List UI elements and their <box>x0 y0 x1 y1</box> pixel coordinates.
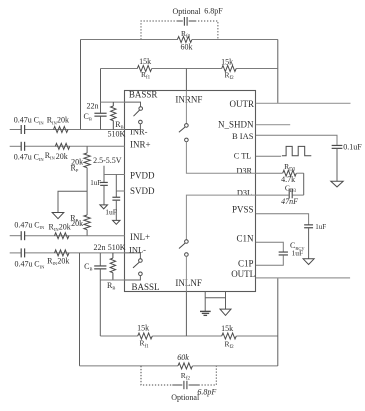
svg-text:1uF: 1uF <box>105 207 117 216</box>
svg-text:INR-: INR- <box>130 127 148 137</box>
optional feedback capacitor C (6.8pF) bottom with dashed connection box <box>141 366 216 389</box>
wire D3R <box>256 172 304 174</box>
wire OUTR <box>256 102 351 104</box>
label 6.8pF (bottom) <box>197 387 216 396</box>
label 510K (RB1) <box>108 129 126 138</box>
svg-text:Optional: Optional <box>171 393 200 402</box>
ground (IC, triangle) <box>220 309 231 315</box>
wire BASSL line <box>100 279 125 281</box>
capacitor CS2 1uF <box>112 197 120 200</box>
wire IC ground stub left <box>204 292 206 311</box>
switch S2 lower circle <box>185 138 189 142</box>
switch S3 INLNF upper circle <box>185 240 189 244</box>
wire C_BIAS to ground <box>336 149 338 182</box>
label 22n (CB2) <box>94 243 106 252</box>
wire input INL- row <box>10 252 125 254</box>
wire PVDD pin <box>104 174 125 176</box>
svg-text:INRNF: INRNF <box>175 95 202 105</box>
ground (IC, bar style) <box>200 311 211 315</box>
svg-text:PVDD: PVDD <box>130 171 155 181</box>
label RF3 <box>181 29 191 40</box>
label 20k (RP1) <box>71 157 83 166</box>
label RF2 <box>225 71 235 82</box>
wire D3L internal to INLNF switch <box>186 195 255 240</box>
svg-text:D3L: D3L <box>237 189 252 198</box>
pin label D3R <box>236 167 252 176</box>
resistor RB1 510K (vertical) <box>111 102 116 129</box>
switch S1 BASSR terminal circle <box>139 107 143 111</box>
wire CB1 top lead <box>100 102 102 113</box>
svg-text:SVDD: SVDD <box>130 186 155 196</box>
switch S3 lower circle <box>185 253 189 257</box>
label RIN4 20k <box>47 257 69 267</box>
wire top feedback left vertical <box>80 40 82 130</box>
svg-text:20k: 20k <box>57 257 69 266</box>
wire supply stub <box>103 166 105 183</box>
resistor RF6 15k (bottom right) <box>222 333 237 339</box>
label 2.5-5.5V <box>93 156 122 165</box>
wire SVDD branch <box>115 175 117 192</box>
wire C1N <box>256 242 283 252</box>
ground (bias divider) <box>52 213 64 219</box>
capacitor C_PVSS 1uF <box>304 225 313 228</box>
svg-text:20k: 20k <box>57 116 69 125</box>
wire 15k bottom row <box>100 335 277 337</box>
resistor RF1 15k (top left) <box>137 66 151 72</box>
pin label C1P <box>238 258 254 268</box>
wire INRNF switch to D3R internal <box>186 142 255 174</box>
switch S4 blade <box>133 262 139 268</box>
label CB2 <box>84 262 92 272</box>
label RF1 <box>141 70 151 81</box>
pin label CTL <box>234 151 252 160</box>
label RF6 <box>225 340 235 351</box>
label RD3 <box>284 162 296 173</box>
svg-text:D3R: D3R <box>236 167 252 176</box>
wire 60k bottom row <box>80 365 278 367</box>
svg-text:0.47u: 0.47u <box>15 260 33 269</box>
label 1uF (CRCV) <box>292 249 304 258</box>
label 20k (RP2) <box>71 219 83 228</box>
pin label SVDD <box>130 186 155 196</box>
switch S1 blade <box>134 110 140 116</box>
label 1uF (CS1) <box>90 179 101 187</box>
label 0.47u CIN2 <box>14 152 45 162</box>
capacitor CB1 22n <box>94 113 106 116</box>
pin label PVSS <box>232 205 254 215</box>
svg-text:15k: 15k <box>221 324 233 333</box>
svg-text:INL+: INL+ <box>130 232 150 242</box>
label 4.7k <box>281 175 295 184</box>
resistor RF4 60k (bottom) <box>178 363 193 369</box>
capacitor CRCV 1uF (flying cap) <box>279 252 288 255</box>
pin label OUTL <box>231 269 255 279</box>
label Optional (top) <box>173 7 202 16</box>
resistor RB2 510K (vertical) <box>110 253 115 280</box>
pin label D3L <box>237 189 252 198</box>
wire BASSL to bottom 15k row vertical <box>99 280 101 336</box>
wire CB2 bottom lead <box>99 269 101 280</box>
pin label OUTR <box>230 99 255 109</box>
svg-text:15k: 15k <box>137 324 149 333</box>
wire RP1 to RP2 <box>86 168 88 215</box>
pin label N_SHDN <box>218 119 254 129</box>
switch S3 blade <box>179 243 185 248</box>
label 6.8pF (top) <box>204 6 223 15</box>
label 47nF <box>281 197 298 206</box>
wire D3L <box>256 194 304 196</box>
label RP2 <box>70 213 78 223</box>
svg-text:1uF: 1uF <box>292 249 304 258</box>
svg-text:1uF: 1uF <box>315 223 326 231</box>
wire C1P <box>256 255 283 265</box>
label 0.47u CIN4 <box>15 260 46 270</box>
wire top feedback right vertical <box>277 40 279 104</box>
wire SVDD pin <box>116 190 125 192</box>
control square wave symbol <box>282 146 311 155</box>
wire CB2 top lead <box>99 253 101 266</box>
wire CTL stub <box>256 155 281 157</box>
wire IC ground stub right <box>225 292 227 309</box>
label 22n <box>87 102 99 111</box>
svg-text:Optional: Optional <box>173 7 202 16</box>
pin label BIAS <box>232 131 254 141</box>
label RF4 <box>181 371 191 382</box>
capacitor C_BIAS 0.1uF <box>332 145 343 148</box>
svg-text:0.47u: 0.47u <box>14 221 32 230</box>
svg-text:15k: 15k <box>221 57 233 66</box>
capacitor CIN2 0.47u <box>21 142 24 151</box>
wire CS1 to ground <box>103 185 105 205</box>
pin label INRNF <box>175 95 202 105</box>
wire INLNF switch down through IC bottom <box>185 256 187 291</box>
pin label INL+ <box>130 232 150 242</box>
wire SVDD branch down <box>115 191 117 197</box>
pin label INLNF <box>175 278 202 288</box>
ground (CS1) <box>100 205 108 209</box>
label 15k (RF5) <box>137 324 149 333</box>
label 60k (top) <box>181 42 193 51</box>
wire input INR- row <box>10 129 125 131</box>
wire BASSR line <box>101 101 126 103</box>
label 0.47u CIN3 <box>14 221 45 231</box>
resistor RF3 60k (top) <box>177 37 192 43</box>
switch S1 lower terminal circle <box>139 120 143 124</box>
capacitor CB2 22n <box>94 266 106 269</box>
ground (C_PVSS) <box>303 259 314 265</box>
pin label C1N <box>236 234 254 244</box>
svg-text:C1P: C1P <box>238 258 254 268</box>
pin label INL- <box>129 245 146 255</box>
label 1uF (CS2) <box>105 207 117 216</box>
resistor RF5 15k (bottom left) <box>138 333 153 339</box>
svg-text:20k: 20k <box>56 152 68 161</box>
wire PVSS <box>256 214 309 225</box>
pin label INR- <box>130 127 148 137</box>
svg-text:20k: 20k <box>59 222 71 231</box>
svg-text:OUTR: OUTR <box>230 99 255 109</box>
wire switch to INR- node <box>125 124 140 130</box>
svg-text:2.5-5.5V: 2.5-5.5V <box>93 156 122 165</box>
svg-text:22n: 22n <box>87 102 99 111</box>
wire INL- pin to switch <box>125 253 140 259</box>
capacitor CD3 47nF <box>289 189 292 199</box>
svg-text:1uF: 1uF <box>90 179 101 187</box>
resistor RIN4 20k <box>55 250 70 256</box>
pin label BASSR <box>129 90 158 100</box>
label 15k (RF2) <box>221 57 233 66</box>
svg-text:INR+: INR+ <box>130 140 151 150</box>
svg-text:BASSR: BASSR <box>129 90 158 100</box>
wire 15k top row <box>101 68 278 70</box>
wire OUTL <box>256 277 350 279</box>
svg-text:BASSL: BASSL <box>132 282 160 292</box>
wire center tap to ground <box>58 191 87 212</box>
svg-text:0.47u: 0.47u <box>14 152 32 161</box>
wire input INR+ row <box>10 145 125 147</box>
svg-text:22n: 22n <box>94 243 106 252</box>
capacitor CIN1 0.47u <box>21 125 24 134</box>
resistor RIN3 20k <box>55 233 70 239</box>
wire D3 loop right side <box>303 173 305 195</box>
wire INLNF vertical below IC <box>185 292 187 336</box>
label RB1 <box>115 120 123 130</box>
wire BIAS <box>256 135 337 145</box>
capacitor CS1 1uF <box>100 182 108 185</box>
wire INRNF vertical inside IC <box>185 91 187 124</box>
label RP1 <box>71 164 79 174</box>
label RIN2 20k <box>45 151 68 161</box>
label RF5 <box>140 339 150 350</box>
wire IC ground bus <box>205 297 225 299</box>
svg-text:C TL: C TL <box>234 151 252 160</box>
wire BASSR pin to switch <box>125 102 141 107</box>
svg-text:INLNF: INLNF <box>175 278 202 288</box>
switch S4 upper terminal circle <box>139 259 143 263</box>
ground (CS2) <box>113 220 120 224</box>
wire 15k row left vertical to BASSR node <box>100 69 102 103</box>
svg-text:510K: 510K <box>108 243 126 252</box>
svg-text:6.8pF: 6.8pF <box>204 6 223 15</box>
resistor RP1 20k (vertical) <box>84 153 90 168</box>
optional feedback capacitor C (6.8pF) top with dashed connection box <box>141 17 218 40</box>
label RIN3 20k <box>49 222 71 232</box>
svg-text:C1N: C1N <box>236 234 254 244</box>
pin label PVDD <box>130 171 155 181</box>
pin label BASSL <box>132 282 160 292</box>
resistor RD3 4.7k <box>283 170 297 176</box>
capacitor CIN3 0.47u <box>21 231 24 240</box>
svg-text:20k: 20k <box>71 219 83 228</box>
svg-text:47nF: 47nF <box>281 197 298 206</box>
capacitor CIN4 0.47u <box>21 248 24 257</box>
label CRCV <box>290 241 305 251</box>
wire INL- feedback vertical <box>79 253 81 366</box>
wire input INL+ row <box>10 235 125 237</box>
label 0.47u CIN1 <box>14 116 45 126</box>
wire INRNF vertical above IC <box>185 69 187 91</box>
label 15k (RF1) <box>139 57 151 66</box>
wire 60k top row <box>81 39 278 41</box>
svg-text:6.8pF: 6.8pF <box>197 387 216 396</box>
wire CS2 to ground <box>115 200 117 220</box>
resistor RF2 15k (top right) <box>222 66 237 72</box>
switch S4 lower terminal circle <box>139 272 143 276</box>
IC U1 amplifier box <box>125 91 256 292</box>
wire RP2 to INL+ row <box>86 230 88 236</box>
resistor RP2 20k (vertical) <box>84 215 90 230</box>
svg-text:0.47u: 0.47u <box>14 116 32 125</box>
svg-text:0.1uF: 0.1uF <box>343 143 362 152</box>
label 1uF (PVSS) <box>315 223 326 231</box>
label CB1 <box>84 112 92 122</box>
resistor RIN1 20k <box>54 127 69 133</box>
wire switch to BASSL pin <box>125 276 140 280</box>
label CD3 <box>285 183 297 194</box>
label RB2 <box>107 281 115 291</box>
wire CB1 bottom lead <box>100 117 102 130</box>
svg-text:PVSS: PVSS <box>232 205 254 215</box>
svg-text:510K: 510K <box>108 129 126 138</box>
svg-text:OUTL: OUTL <box>231 269 255 279</box>
wire N_SHDN stub <box>256 124 290 126</box>
label Optional (bottom) <box>171 393 200 402</box>
switch S2 INRNF upper circle <box>185 124 189 128</box>
svg-text:15k: 15k <box>139 57 151 66</box>
switch S2 blade <box>179 127 185 132</box>
label 0.1uF <box>343 143 362 152</box>
ground (C_BIAS) <box>331 181 343 187</box>
wire OUTL feedback vertical <box>277 278 279 366</box>
svg-text:N_SHDN: N_SHDN <box>218 119 254 129</box>
label 60k (bottom) <box>177 353 189 362</box>
wire C_PVSS to ground <box>308 228 310 259</box>
svg-text:B IAS: B IAS <box>232 131 254 141</box>
pin label INR+ <box>130 140 151 150</box>
resistor RIN2 20k <box>55 143 69 149</box>
wire INR+ junction down <box>86 146 88 153</box>
svg-text:60k: 60k <box>181 42 193 51</box>
label RIN1 20k <box>47 116 69 126</box>
svg-text:60k: 60k <box>177 353 189 362</box>
label 510K (RB2) <box>108 243 126 252</box>
label 15k (RF6) <box>221 324 233 333</box>
